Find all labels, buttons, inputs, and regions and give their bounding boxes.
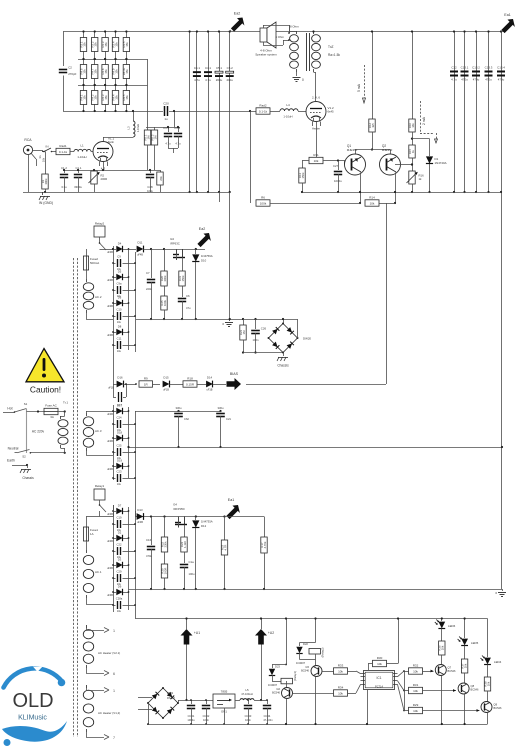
wire Q1 emitter (360, 173, 362, 204)
wire rail x=189.6 (189, 32, 191, 193)
wire primary bottom (61, 448, 65, 450)
wire LED4 column (487, 619, 489, 658)
svg-text:10k: 10k (370, 201, 375, 205)
resistor R10 16k (409, 119, 415, 132)
diode D23 1N4007 (flyback) (272, 664, 286, 666)
wire rail x=219 (219, 32, 221, 193)
svg-text:1k5: 1k5 (371, 123, 375, 128)
svg-text:D18: D18 (117, 431, 122, 435)
ground 0 (speaker return) (293, 77, 301, 79)
rectifier ladder D17/C24... (AC.3) (113, 405, 115, 480)
diode D14 (206, 381, 213, 388)
svg-text:270pF: 270pF (68, 72, 76, 76)
node +U1 arrow (181, 629, 193, 645)
svg-text:Earth: Earth (7, 459, 15, 463)
svg-text:D2: D2 (118, 531, 122, 535)
svg-text:IRF63C: IRF63C (170, 242, 180, 246)
wire Ea1 rail y=516.5 (135, 516, 225, 518)
resistor R29 10k (404, 710, 409, 712)
svg-text:Ea1: Ea1 (228, 498, 234, 502)
svg-text:uF4B: uF4B (107, 567, 113, 570)
resistor R31 10k (404, 690, 409, 692)
wire B+ filter caps top (135, 411, 221, 413)
svg-text:D3: D3 (118, 558, 122, 562)
svg-text:D16: D16 (117, 376, 123, 380)
svg-text:IRFP350: IRFP350 (173, 507, 184, 511)
svg-text:BC546: BC546 (471, 688, 479, 692)
svg-text:1: 1 (113, 629, 115, 633)
resistor R11 10k (309, 157, 323, 163)
label 2 mA (420, 101, 422, 133)
wire LED6 column (441, 619, 443, 622)
resistor R4.9 (115, 59, 117, 65)
svg-text:D7: D7 (118, 504, 122, 508)
svg-text:uF4B: uF4B (107, 305, 113, 308)
svg-text:AC.1: AC.1 (95, 570, 102, 574)
capacitor C5.2 (226, 71, 234, 73)
resistor R31 150k (179, 271, 185, 286)
svg-text:C9a: C9a (117, 282, 122, 286)
capacitor C1.2 3.3u (64, 170, 66, 173)
resistor R13 150k (299, 168, 305, 183)
svg-text:1A: 1A (90, 532, 94, 536)
svg-text:3A: 3A (50, 415, 54, 419)
svg-text:C2: C2 (68, 66, 72, 70)
svg-text:C9: C9 (117, 255, 121, 259)
wire rail x=464 (464, 32, 466, 193)
svg-text:Ea2: Ea2 (199, 227, 205, 231)
svg-text:Chassis: Chassis (277, 364, 289, 368)
svg-text:4.70k: 4.70k (263, 541, 267, 548)
svg-text:uF1B: uF1B (163, 389, 169, 392)
resistor R38 10k (484, 677, 490, 691)
svg-text:Caution!: Caution! (30, 385, 61, 395)
svg-text:10u: 10u (117, 483, 122, 486)
svg-text:1N4740A: 1N4740A (435, 161, 447, 165)
svg-text:10k: 10k (413, 669, 418, 673)
diode D13 (rail) (137, 513, 144, 520)
wire Q9 emitter (487, 713, 489, 725)
svg-text:(Relay2): (Relay2) (321, 647, 325, 657)
svg-text:uF4B: uF4B (107, 413, 113, 416)
inductor L1 1-10uH (70, 151, 74, 153)
svg-text:15k: 15k (82, 69, 86, 74)
wire rail x=208 (208, 32, 210, 193)
svg-text:(Relay1): (Relay1) (293, 671, 297, 681)
svg-text:10u: 10u (117, 350, 122, 353)
wire primary bottom to ground (296, 72, 298, 76)
svg-text:OLD: OLD (12, 690, 53, 712)
wire lower tie y=352.5 (243, 352, 283, 354)
svg-text:C20: C20 (163, 102, 169, 106)
wire bottom 0V bus y=724 (147, 724, 488, 726)
svg-text:C27: C27 (333, 164, 339, 168)
diode D11 (137, 246, 144, 253)
capacitor C13.4 (497, 71, 505, 73)
wire AC.1 bottom (86, 598, 88, 604)
svg-text:C4.1: C4.1 (194, 66, 200, 70)
switch S1 (15, 409, 27, 413)
svg-text:15k: 15k (104, 69, 108, 74)
wire LED5 column (464, 619, 466, 639)
resistor Rad2 0.1-1k (256, 108, 270, 114)
capacitor C13.2 (472, 71, 480, 73)
wire IC feed column (398, 619, 400, 664)
svg-text:10k: 10k (463, 663, 467, 668)
svg-text:Heater: Heater (312, 127, 320, 131)
resistor R30 10k (373, 660, 387, 666)
node Ea1 (mid arrow) (226, 505, 240, 519)
capacitor C3.1 4.7u (168, 127, 170, 132)
svg-text:C12: C12 (451, 66, 457, 70)
svg-text:KLIMusic: KLIMusic (18, 715, 47, 722)
svg-text:330u: 330u (218, 406, 224, 410)
svg-text:15k: 15k (125, 95, 129, 100)
svg-text:C13.2: C13.2 (472, 66, 480, 70)
wire R31 to Q8 base (423, 690, 457, 692)
capacitor C17 (bias filter) (113, 384, 115, 397)
capacitor C13.1 (461, 71, 469, 73)
wire relay2 to Q5 collector (315, 654, 317, 660)
wire rail x=488 (488, 32, 490, 193)
wire dropper tap down to R5 (147, 59, 149, 127)
svg-text:Q9: Q9 (494, 703, 498, 707)
svg-text:15k: 15k (82, 42, 86, 47)
wire Q5 base from R33 (322, 671, 334, 673)
resistor R17 4.70k (261, 537, 267, 553)
svg-text:7805: 7805 (221, 690, 228, 694)
wire Q6 base from R34 (293, 693, 334, 695)
svg-text:Tr.1: Tr.1 (63, 401, 68, 405)
svg-text:L5: L5 (245, 688, 249, 692)
svg-text:7: 7 (113, 736, 115, 740)
wire speaker to 4 Ohm tap (263, 42, 265, 45)
svg-text:4.7R: 4.7R (223, 545, 227, 551)
wire R15 to R16 (412, 158, 414, 171)
ground Chassis (mains) (27, 465, 29, 468)
wire relay feed (86, 516, 100, 518)
svg-text:100k: 100k (260, 201, 267, 205)
svg-text:BIAS: BIAS (230, 372, 239, 376)
svg-text:15k: 15k (114, 95, 118, 100)
connector RCA input (23, 145, 32, 154)
connector heater pin 6 (86, 668, 88, 673)
svg-text:uF4B: uF4B (107, 251, 113, 254)
svg-text:Ra=1.5k: Ra=1.5k (328, 53, 340, 57)
relay coil Relay2 (309, 649, 321, 655)
LED5 (461, 639, 468, 646)
svg-text:100u: 100u (189, 572, 195, 576)
svg-text:L1: L1 (80, 144, 84, 148)
svg-text:15k: 15k (114, 42, 118, 47)
svg-text:200R: 200R (101, 177, 108, 181)
svg-text:6: 6 (113, 672, 115, 676)
svg-text:10k: 10k (441, 645, 445, 650)
ground Chassis (bridge) (278, 357, 288, 359)
wire R11 right to Q1 base (323, 160, 338, 162)
resistor R8 20k (160, 170, 162, 172)
svg-text:R34: R34 (338, 685, 344, 689)
capacitor C21 330u (219, 410, 221, 412)
resistor R5.2 1M (154, 127, 156, 130)
svg-text:R18: R18 (187, 376, 193, 380)
resistor R4.2 (94, 85, 96, 91)
svg-text:uF4B: uF4B (137, 521, 143, 524)
wire bus y=447 (129, 447, 503, 449)
svg-text:C1a: C1a (189, 560, 195, 564)
label heater pins V1.1 (99, 162, 101, 167)
svg-text:10u: 10u (117, 321, 122, 324)
wire V1.1 cathode (103, 162, 105, 171)
wire R11 left to R13 (302, 160, 309, 162)
svg-text:10k: 10k (413, 709, 418, 713)
connector heater pin 1b (86, 685, 88, 690)
svg-text:15k: 15k (125, 42, 129, 47)
svg-text:C26: C26 (261, 327, 267, 331)
svg-text:4.7u: 4.7u (205, 78, 211, 82)
svg-text:AC 220v: AC 220v (32, 430, 45, 434)
resistor R14 10k (365, 200, 379, 206)
ground 0 (right rail) (498, 592, 506, 594)
tube V1.2 6s45 (306, 102, 326, 122)
wire switch to Rad1 (52, 151, 57, 153)
svg-text:1N4735A: 1N4735A (201, 520, 213, 524)
ground IN (GND) marks (42, 192, 44, 195)
svg-text:100R: 100R (163, 568, 167, 575)
resistor R18 0.15R (183, 381, 197, 387)
transistor Q5 BC546 (311, 666, 322, 677)
wire R5 top tie (146, 127, 180, 129)
svg-text:G5: G5 (305, 665, 309, 669)
label heater V1.2 (312, 122, 314, 127)
svg-text:470u: 470u (498, 78, 505, 82)
svg-text:R31: R31 (413, 683, 419, 687)
wire rail x=197 (196, 32, 198, 193)
winding AC.3 (86, 413, 88, 416)
wire 0V bus y=589 (129, 589, 503, 591)
svg-text:15k: 15k (82, 95, 86, 100)
svg-text:470u: 470u (461, 78, 468, 82)
capacitor C16 470u (150, 515, 152, 517)
fuse Fuse2 500mA (86, 249, 88, 256)
svg-text:0.15R: 0.15R (186, 382, 195, 386)
wire matrix bus y=85 (78, 85, 148, 87)
diode D22 1N4007 (flyback) (300, 642, 316, 644)
wire top B+ bus y=31.5 (63, 31, 505, 33)
svg-text:PC714: PC714 (375, 685, 383, 689)
svg-text:0: 0 (302, 78, 304, 82)
svg-text:D23: D23 (275, 665, 280, 669)
svg-text:BC546: BC546 (301, 669, 309, 673)
svg-text:1-1k0: 1-1k0 (183, 541, 187, 548)
svg-text:uF4B: uF4B (137, 254, 143, 257)
svg-text:MJE350: MJE350 (382, 148, 393, 152)
resistor R33 10k (334, 668, 348, 674)
winding AC Heater (V2.1) (86, 625, 88, 628)
resistor R6 100k (250, 111, 252, 203)
capacitor CC34 47-100n (267, 700, 269, 704)
wire Q2 emitter (395, 173, 397, 204)
svg-text:2 mA: 2 mA (422, 116, 426, 125)
resistor R4.5 (126, 85, 128, 91)
svg-text:200u: 200u (226, 78, 233, 82)
resistor R1 390k (45, 152, 47, 175)
svg-text:C13.4: C13.4 (497, 66, 505, 70)
svg-text:D13: D13 (137, 508, 143, 512)
resistor R24 1-1k0 (181, 537, 187, 552)
wire bridge AC feeds (138, 697, 152, 699)
svg-text:Q7: Q7 (448, 666, 452, 670)
svg-text:LED5: LED5 (471, 641, 479, 645)
svg-text:MJE350: MJE350 (347, 148, 358, 152)
svg-text:390k: 390k (44, 178, 48, 185)
svg-text:10u: 10u (117, 610, 122, 613)
trimmer R16 1k (409, 171, 415, 184)
svg-text:D8: D8 (118, 325, 122, 329)
inductor L4 1-10uH (270, 111, 280, 113)
svg-text:1: 1 (113, 689, 115, 693)
svg-text:C28a: C28a (116, 597, 123, 601)
resistor R23 4.7R (221, 540, 227, 555)
svg-text:C25: C25 (117, 444, 122, 448)
wire D1 branch (412, 138, 430, 140)
ground bus y=192 right segment (303, 192, 501, 194)
wire bridge bottom to chassis (283, 353, 285, 357)
ground bus y=192 left segment (23, 192, 230, 194)
resistor R26 300k (163, 248, 165, 250)
svg-text:+U1: +U1 (194, 631, 200, 635)
node Ea1 (top right arrow) (501, 19, 514, 33)
svg-text:DW2: DW2 (167, 691, 174, 695)
svg-text:1u: 1u (164, 117, 168, 121)
svg-text:C5.1: C5.1 (216, 66, 222, 70)
svg-text:C6: C6 (186, 294, 190, 298)
svg-text:10k: 10k (486, 681, 490, 686)
wire bridge left to bus (148, 703, 150, 724)
svg-text:2, 4, 6: 2, 4, 6 (312, 96, 320, 100)
svg-text:C62: C62 (184, 417, 189, 421)
resistor R4.4 (115, 85, 117, 91)
wire R12 feed from B+ bus (372, 32, 374, 120)
resistor R34 10k (334, 690, 348, 696)
svg-text:16k: 16k (411, 123, 415, 128)
diode D12 1N4735A (zener) (195, 515, 197, 517)
svg-text:C24: C24 (117, 416, 122, 420)
node BIAS arrow (227, 378, 242, 390)
svg-text:500mA: 500mA (90, 261, 99, 265)
svg-text:Fuse AC: Fuse AC (45, 404, 57, 408)
transistor Q7 BC546 (435, 665, 446, 676)
capacitor CC31 1000u (191, 700, 193, 704)
optocoupler IC1 (364, 671, 395, 690)
wire L1 to V1.1 grid (91, 151, 93, 153)
capacitor C7 220u (150, 248, 152, 250)
svg-text:330k: 330k (163, 541, 167, 548)
svg-text:L3: L3 (127, 126, 131, 130)
winding AC.1 (86, 550, 88, 553)
diode D1 1N4740A (426, 156, 433, 163)
diode D10 1N4756A (zener) (195, 248, 197, 250)
svg-text:D14: D14 (207, 376, 213, 380)
svg-text:47-100n: 47-100n (263, 719, 273, 722)
ground 0 at bus (229, 319, 231, 321)
capacitor C13.3 (485, 71, 493, 73)
svg-text:Ea1: Ea1 (504, 13, 510, 17)
svg-text:R11: R11 (313, 153, 319, 157)
wire R12 to collectors (372, 132, 374, 150)
wire secondary top to B+ bus (313, 30, 315, 33)
wire R32 to Q7 base (423, 671, 434, 673)
svg-text:1N4007: 1N4007 (296, 661, 306, 665)
svg-text:1-10uH: 1-10uH (77, 155, 86, 159)
svg-text:G3: G3 (170, 237, 174, 241)
svg-text:Speaker system: Speaker system (255, 53, 277, 57)
wire +U1 column (186, 645, 188, 701)
transistor Q6 BC546 (282, 688, 293, 699)
svg-text:uF4B: uF4B (107, 334, 113, 337)
svg-text:D19: D19 (117, 459, 122, 463)
wire R29 to Q9 base (423, 710, 480, 712)
switch link S1-S2 (26, 409, 28, 453)
svg-text:150k: 150k (301, 172, 305, 179)
connector heater pin 7 (86, 732, 88, 737)
capacitor C27 1000u (337, 159, 339, 161)
winding AC Heater (V1.2) (86, 685, 88, 688)
svg-text:+U2: +U2 (268, 631, 274, 635)
svg-text:uF4B: uF4B (107, 594, 113, 597)
svg-text:LED4: LED4 (494, 660, 502, 664)
svg-text:5 mA: 5 mA (357, 83, 361, 92)
wire AC.2 bottom to ladder (86, 313, 88, 319)
svg-text:47-100uH: 47-100uH (241, 692, 253, 696)
svg-text:C21: C21 (226, 417, 231, 421)
connector heater pin 1 (86, 625, 88, 630)
rectifier ladder D4/C9... (AC.2) (113, 246, 115, 352)
svg-text:4.7u: 4.7u (194, 78, 200, 82)
svg-text:S2: S2 (22, 455, 26, 459)
svg-text:100k: 100k (163, 299, 167, 306)
resistor R3.1 (83, 32, 85, 38)
capacitor CC33 100n (248, 700, 250, 704)
svg-text:15k: 15k (94, 69, 98, 74)
svg-text:D15: D15 (163, 376, 169, 380)
wire Ea1 node (223, 515, 225, 517)
svg-text:D22: D22 (303, 642, 308, 646)
svg-text:6s45: 6s45 (328, 110, 335, 114)
svg-text:S1: S1 (24, 402, 28, 406)
wire L4 to V1.2 grid (298, 111, 306, 113)
diode D16 (113, 384, 117, 386)
capacitor C6 47u (178, 298, 186, 300)
svg-text:150k: 150k (181, 275, 185, 282)
svg-text:C7: C7 (146, 271, 150, 275)
rectifier ladder (AC.1) (113, 505, 115, 612)
svg-text:C4.1: C4.1 (205, 66, 211, 70)
wire bridge right corner up to 0V bus (297, 319, 299, 338)
wire C3 bottoms (168, 148, 178, 150)
svg-text:10k: 10k (338, 669, 343, 673)
resistor R4.6 (83, 59, 85, 65)
rectifier bridge DW20 (283, 319, 285, 324)
resistor R32 10k (404, 671, 409, 673)
svg-text:15k: 15k (94, 95, 98, 100)
svg-text:15k: 15k (94, 42, 98, 47)
svg-text:330u: 330u (176, 406, 182, 410)
transistor Q9 BC546 (481, 702, 492, 713)
svg-text:R14: R14 (369, 195, 375, 199)
capacitor C3.1b 4.7u (178, 127, 180, 132)
svg-text:D5: D5 (118, 270, 122, 274)
